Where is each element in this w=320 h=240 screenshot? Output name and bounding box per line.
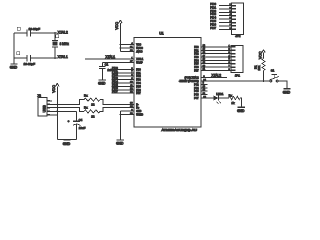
connector X2 USB [38, 94, 47, 117]
svg-text:GND: GND [136, 111, 141, 113]
svg-text:AVCC: AVCC [136, 50, 143, 53]
ground reset circuit [283, 88, 290, 90]
svg-text:UVCC: UVCC [136, 48, 143, 50]
ground USB rail [63, 139, 70, 141]
junction RESET / R4 [263, 80, 265, 82]
U1 pin 18 PB4 / wire to JP1 [194, 59, 231, 63]
ground LED circuit [238, 106, 245, 108]
svg-text:-RESET (PC1/DW): -RESET (PC1/DW) [179, 81, 199, 83]
U1 pin 2 (PC0)XTAL2 [185, 74, 227, 80]
svg-text:10-22pF: 10-22pF [29, 27, 41, 31]
ground U1 GND pins [117, 139, 124, 141]
svg-text:USB: USB [43, 105, 47, 113]
wire VBUS down to C4 [76, 111, 78, 121]
U1 pin 30 D- [130, 103, 139, 107]
ground C1 [99, 79, 106, 81]
svg-text:PB6: PB6 [194, 67, 199, 69]
svg-text:C4: C4 [79, 118, 83, 122]
crystal Q1 8 MHz [52, 33, 69, 58]
op-amp U1 ATMEGA8U2 body [134, 31, 201, 132]
resistor R4 10K [253, 59, 265, 71]
pin pads of JP1 [231, 46, 235, 71]
svg-text:GND: GND [63, 142, 71, 146]
U1 pin 7 PD1 [112, 69, 142, 75]
svg-text:XTAL1: XTAL1 [106, 55, 116, 59]
wire LED1 to R3 [219, 97, 229, 99]
wire S1 to ground [278, 81, 287, 88]
wire XTAL2 net top row [14, 32, 57, 34]
svg-text:GND: GND [98, 82, 106, 86]
JP2 pin 5 wire PD4 [210, 16, 236, 20]
capacitor C4 10uF polarized [68, 118, 86, 130]
U1 pin 23 PC6 [194, 93, 207, 97]
svg-text:X2: X2 [38, 94, 42, 98]
power VCC near USB [56, 83, 59, 86]
wire UCAP to U1 [102, 63, 134, 67]
U1 pin 16 PB2 / wire to JP1 [194, 52, 231, 56]
svg-text:D-: D- [136, 104, 139, 106]
ground crystal loop [10, 63, 17, 65]
svg-text:PC7: PC7 [194, 98, 199, 100]
svg-text:PC4: PC4 [194, 88, 199, 90]
U1 pin 20 PB6 / wire to JP1 [194, 65, 231, 69]
svg-text:8 MHz: 8 MHz [60, 42, 70, 46]
svg-text:PC6: PC6 [194, 95, 199, 97]
svg-text:PD2: PD2 [136, 76, 141, 78]
svg-text:UCAP: UCAP [136, 62, 143, 65]
wire XTAL1 to U1 [85, 58, 134, 60]
JP2 pin 3 wire PD2 [210, 9, 236, 13]
svg-text:PD7: PD7 [136, 93, 141, 95]
U1 pin 17 PB3 / wire to JP1 [194, 55, 231, 59]
wire R3 to ground [240, 98, 241, 107]
wire VCC to R4 [263, 53, 265, 59]
svg-text:VCC: VCC [136, 45, 141, 47]
junction UGND stub [120, 114, 122, 116]
capacitor C1 1uF [99, 63, 112, 72]
capacitor C2 [17, 27, 40, 37]
resistor R2 22 [84, 105, 100, 118]
svg-text:PB1: PB1 [194, 50, 199, 52]
wire VBUS from USB [52, 110, 77, 112]
svg-text:Rx: Rx [84, 93, 88, 97]
U1 pin 6 PD0 [112, 66, 142, 72]
wire VCC stem down to VBUS [56, 86, 58, 111]
U1 pin 15 PB1 / wire to JP1 [194, 49, 231, 53]
U1 pin 11 PD5 [112, 83, 142, 89]
svg-text:PD1: PD1 [136, 73, 141, 75]
U1 pin 24 RESET wire to reset circuit [179, 79, 270, 83]
LED LED1 [213, 92, 224, 104]
junction top of crystal [54, 32, 56, 34]
svg-text:ATMEGA8U2(20)-AU: ATMEGA8U2(20)-AU [162, 128, 198, 132]
svg-text:XTAL1: XTAL1 [136, 58, 144, 61]
svg-text:Rx: Rx [229, 94, 233, 98]
svg-text:+: + [68, 119, 70, 123]
U1 pin 4 VCC [131, 43, 141, 47]
U1 pin 32 AVCC [130, 50, 143, 54]
svg-text:Rx: Rx [84, 105, 88, 109]
connector JP1 [231, 45, 243, 77]
svg-text:XTAL1: XTAL1 [58, 55, 68, 59]
U1 pin 26 PC4 [194, 86, 207, 90]
U1 pin 21 PB7 / wire to JP1 [194, 69, 231, 73]
JP2 pin 8 wire PD7 [210, 26, 236, 30]
svg-text:10-22pF: 10-22pF [24, 62, 36, 66]
svg-text:C1: C1 [105, 63, 109, 67]
svg-text:U1: U1 [159, 31, 163, 35]
svg-text:S1: S1 [271, 68, 275, 72]
wire USB D+ to R2 [52, 108, 84, 112]
U1 pin 1 XTAL1 [131, 57, 143, 61]
resistor R3 1k [229, 94, 241, 105]
wire R2 to U1 pin 29 [100, 108, 134, 112]
svg-text:PD3: PD3 [136, 80, 141, 82]
svg-text:PB2: PB2 [194, 54, 199, 56]
svg-text:VCC: VCC [115, 22, 119, 30]
switch S1 [270, 68, 279, 82]
svg-text:PD4: PD4 [136, 83, 141, 85]
wire left vertical of crystal loop [13, 33, 15, 63]
svg-text:PC5: PC5 [194, 91, 199, 93]
wire VCC rail to power pins [120, 23, 134, 51]
U1 pin 5 PC2 [194, 83, 207, 87]
wire USB D- to R1 [52, 100, 84, 105]
wire C1 to ground [101, 69, 103, 80]
wire C4 to ground rail [76, 125, 78, 140]
svg-text:XTAL2: XTAL2 [212, 74, 222, 78]
svg-text:PD6: PD6 [136, 90, 141, 92]
U1 pin 19 PB5 / wire to JP1 [194, 62, 231, 66]
wire R4 to RESET net [263, 71, 265, 82]
svg-text:JP1: JP1 [235, 74, 241, 78]
svg-text:PD7: PD7 [210, 26, 216, 30]
U1 pin 29 D+ [130, 106, 140, 110]
JP2 pin 4 wire PD3 [210, 12, 236, 16]
junction VCC / VBUS [56, 111, 58, 113]
svg-text:GND: GND [116, 142, 124, 146]
svg-text:GND: GND [237, 109, 245, 113]
U1 pin 27 UCAP [130, 61, 143, 65]
power VCC for U1 [119, 20, 122, 23]
JP2 pin 6 wire PD5 [210, 19, 236, 23]
svg-text:1k: 1k [231, 101, 235, 105]
power VCC reset [262, 50, 265, 53]
wire ground rail [57, 139, 76, 141]
svg-text:PB0: PB0 [194, 47, 199, 49]
svg-text:22: 22 [91, 103, 95, 107]
JP2 pin 7 wire PD6 [210, 22, 236, 26]
svg-text:22: 22 [91, 114, 95, 118]
svg-text:GND: GND [283, 91, 291, 95]
U1 pin 31 UVCC [130, 46, 143, 50]
svg-text:VCC: VCC [258, 51, 262, 59]
svg-text:PB7: PB7 [194, 70, 199, 72]
svg-text:XTAL2: XTAL2 [58, 31, 68, 35]
JP2 pin 1 wire PD0 [210, 2, 236, 6]
U1 pin 22 PC7 wire to LED1 [194, 96, 213, 100]
U1 pin 9 PD3 [112, 76, 142, 82]
svg-text:PB3: PB3 [194, 57, 199, 59]
U1 pin 25 PC5 [194, 90, 207, 94]
svg-text:UGND: UGND [136, 114, 143, 116]
junction bottom of crystal [54, 57, 56, 59]
U1 pin 28 UGND [130, 113, 143, 117]
junction VCC rail pin 31 [120, 47, 122, 49]
svg-text:VCC: VCC [52, 85, 56, 93]
svg-text:PD5: PD5 [136, 86, 141, 88]
svg-text:PC2: PC2 [194, 84, 199, 86]
wire R1 to U1 pin 30 [100, 100, 134, 105]
svg-text:R1: R1 [253, 65, 257, 69]
U1 pin 12 PD6 [112, 86, 142, 92]
wire USB ground drop [52, 111, 57, 139]
svg-text:GND: GND [10, 66, 18, 70]
junction VCC rail pin 4 [120, 44, 122, 46]
svg-text:(PC0) XTAL2: (PC0) XTAL2 [185, 77, 200, 80]
JP2 pin 2 wire PD1 [210, 5, 236, 9]
svg-text:PB4: PB4 [194, 60, 199, 62]
svg-text:JP2: JP2 [235, 34, 241, 38]
resistor R1 22 [84, 93, 100, 106]
svg-text:LED1: LED1 [216, 92, 224, 96]
svg-text:10K: 10K [257, 65, 261, 70]
U1 pin 8 PD2 [112, 73, 142, 79]
U1 pin 3 GND [131, 109, 141, 113]
pin pads of X2 [47, 100, 52, 116]
connector JP2 [232, 3, 244, 38]
wire XTAL1 net bottom row [14, 57, 57, 59]
svg-text:PD7: PD7 [112, 90, 118, 94]
U1 pin 10 PD4 [112, 79, 142, 85]
capacitor C3 [17, 52, 35, 66]
U1 pin 14 PB0 / wire to JP1 [194, 45, 231, 49]
wire GND pins of U1 [120, 111, 134, 140]
svg-text:PD0: PD0 [136, 69, 141, 71]
svg-text:10uF: 10uF [79, 126, 86, 130]
svg-text:PB5: PB5 [194, 64, 199, 66]
U1 pin 13 PD7 [112, 90, 142, 96]
